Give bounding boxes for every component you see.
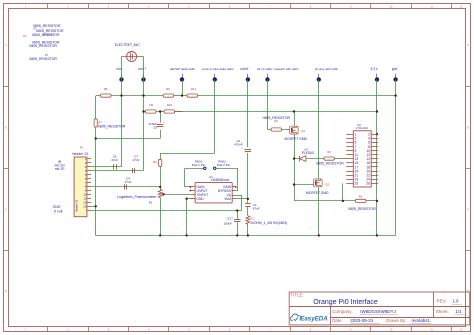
svg-text:datTHP delta radio: datTHP delta radio bbox=[170, 67, 195, 71]
svg-text:Header 13: Header 13 bbox=[72, 152, 88, 156]
svg-text:K?: K? bbox=[45, 53, 49, 57]
svg-text:5 volt: 5 volt bbox=[54, 210, 63, 214]
svg-text:Pad 1 Pin: Pad 1 Pin bbox=[192, 163, 206, 167]
svg-text:+: + bbox=[241, 146, 243, 150]
svg-text:R2: R2 bbox=[359, 195, 363, 199]
svg-text:IW8DGS/IW8DYJ: IW8DGS/IW8DYJ bbox=[360, 309, 396, 314]
svg-text:Sheet:: Sheet: bbox=[436, 309, 449, 314]
svg-text:REV:: REV: bbox=[437, 299, 447, 304]
svg-text:Header 13: Header 13 bbox=[75, 199, 79, 212]
svg-text:+: + bbox=[231, 216, 233, 220]
svg-text:C8: C8 bbox=[153, 126, 157, 130]
svg-text:2020-05-31: 2020-05-31 bbox=[350, 318, 374, 323]
svg-text:ptt no radio / squelch with ra: ptt no radio / squelch with radio bbox=[257, 67, 299, 71]
svg-text:R1: R1 bbox=[149, 201, 153, 205]
svg-text:Vout: Vout bbox=[224, 197, 231, 201]
svg-text:EasyEDA: EasyEDA bbox=[300, 316, 328, 323]
svg-text:0805_RESISTOR: 0805_RESISTOR bbox=[348, 207, 376, 211]
svg-text:mic -: mic - bbox=[117, 67, 124, 71]
svg-text:0805_RESISTOR: 0805_RESISTOR bbox=[33, 24, 61, 28]
svg-text:MOSFET SMD: MOSFET SMD bbox=[306, 191, 329, 195]
svg-text:11: 11 bbox=[84, 197, 87, 201]
svg-text:10: 10 bbox=[83, 193, 86, 197]
svg-text:R1: R1 bbox=[251, 216, 255, 220]
svg-text:JFET_N: JFET_N bbox=[43, 32, 53, 36]
svg-text:GND: GND bbox=[196, 197, 204, 201]
svg-text:0805_RESISTOR: 0805_RESISTOR bbox=[98, 125, 126, 129]
svg-text:0805_RESISTOR: 0805_RESISTOR bbox=[29, 57, 57, 61]
svg-text:R6: R6 bbox=[327, 150, 331, 154]
svg-text:2.54 2x13: 2.54 2x13 bbox=[356, 126, 368, 130]
svg-text:U?: U? bbox=[33, 26, 37, 30]
svg-text:10OHM_1_4W 5%(0603): 10OHM_1_4W 5%(0603) bbox=[250, 221, 287, 225]
svg-text:R9: R9 bbox=[166, 87, 170, 91]
svg-text:1.0: 1.0 bbox=[452, 299, 459, 304]
svg-text:R5: R5 bbox=[150, 103, 154, 107]
svg-text:47nF: 47nF bbox=[125, 180, 132, 184]
svg-text:remlabs1: remlabs1 bbox=[412, 318, 431, 323]
svg-text:Date:: Date: bbox=[332, 318, 343, 323]
svg-text:ELECTRET_MIC: ELECTRET_MIC bbox=[115, 43, 141, 47]
svg-text:verso 3 mike delta radio: verso 3 mike delta radio bbox=[202, 67, 234, 71]
svg-text:100uF: 100uF bbox=[223, 221, 232, 225]
svg-text:Logaritmic_Potensiometer: Logaritmic_Potensiometer bbox=[117, 195, 157, 199]
svg-text:Q1: Q1 bbox=[301, 129, 305, 133]
svg-text:Company:: Company: bbox=[332, 309, 353, 314]
svg-text:mic +: mic + bbox=[138, 67, 146, 71]
svg-text:KA: KA bbox=[23, 35, 27, 38]
svg-text:0805_RESISTOR: 0805_RESISTOR bbox=[316, 161, 344, 165]
svg-text:R4: R4 bbox=[153, 160, 157, 164]
svg-text:LM386Dsmx: LM386Dsmx bbox=[211, 178, 230, 182]
svg-text:R11: R11 bbox=[191, 87, 196, 91]
svg-text:25: 25 bbox=[355, 182, 359, 186]
svg-text:26: 26 bbox=[366, 182, 370, 186]
svg-text:gnd: gnd bbox=[392, 67, 398, 71]
svg-text:GND: GND bbox=[53, 205, 61, 209]
svg-text:47nF: 47nF bbox=[253, 207, 260, 211]
svg-text:13: 13 bbox=[83, 205, 86, 209]
svg-text:Pad 2 Pin: Pad 2 Pin bbox=[217, 163, 231, 167]
svg-text:47nF: 47nF bbox=[133, 158, 140, 162]
svg-text:out bf: out bf bbox=[240, 67, 248, 71]
svg-text:Orange Pi0 Interface: Orange Pi0 Interface bbox=[313, 299, 378, 306]
svg-text:+: + bbox=[163, 121, 165, 125]
svg-text:3,3 v: 3,3 v bbox=[370, 67, 377, 71]
svg-text:R8: R8 bbox=[104, 87, 108, 91]
svg-text:47nF: 47nF bbox=[111, 158, 118, 162]
svg-text:TITLE:: TITLE: bbox=[291, 293, 304, 298]
svg-text:MOSFET SMD: MOSFET SMD bbox=[284, 137, 307, 141]
svg-text:mic 2P: mic 2P bbox=[55, 167, 65, 171]
svg-text:P1: P1 bbox=[80, 146, 84, 150]
svg-text:1/1: 1/1 bbox=[455, 309, 462, 314]
svg-text:Q2: Q2 bbox=[325, 182, 329, 186]
svg-text:Drawn By:: Drawn By: bbox=[386, 318, 406, 323]
svg-text:0805_RESISTOR: 0805_RESISTOR bbox=[263, 116, 291, 120]
svg-text:ptt only with radio: ptt only with radio bbox=[315, 67, 339, 71]
svg-text:PLED6S: PLED6S bbox=[302, 151, 314, 155]
svg-text:R10: R10 bbox=[167, 103, 173, 107]
svg-text:12: 12 bbox=[83, 201, 86, 205]
svg-text:0805_RESISTOR: 0805_RESISTOR bbox=[29, 44, 57, 48]
